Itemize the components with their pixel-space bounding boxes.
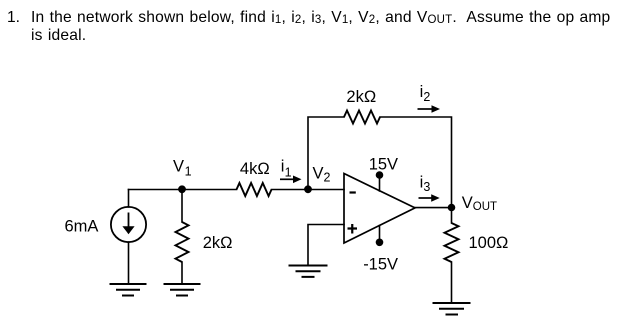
svg-text:V: V [462, 194, 473, 212]
svg-text:1: 1 [185, 164, 192, 178]
svg-text:-15V: -15V [363, 256, 398, 274]
svg-text:1: 1 [285, 165, 292, 179]
svg-text:2: 2 [423, 90, 430, 104]
svg-text:V: V [313, 165, 324, 183]
svg-text:OUT: OUT [473, 201, 497, 213]
svg-text:6mA: 6mA [65, 218, 99, 236]
svg-text:100Ω: 100Ω [469, 234, 509, 252]
svg-text:4kΩ: 4kΩ [240, 160, 270, 178]
svg-text:V: V [173, 158, 184, 176]
svg-text:3: 3 [423, 180, 430, 194]
svg-text:2kΩ: 2kΩ [346, 88, 376, 106]
svg-text:15V: 15V [369, 155, 398, 173]
svg-text:2: 2 [324, 171, 331, 185]
svg-text:2kΩ: 2kΩ [203, 234, 233, 252]
